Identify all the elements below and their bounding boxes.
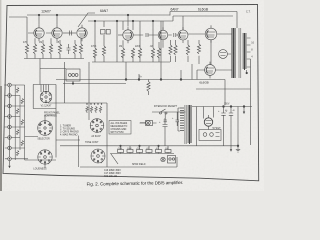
input jack J1 [8, 83, 12, 87]
bottom bus [80, 157, 177, 167]
tube V7 output [205, 62, 216, 79]
wire screen risers [126, 62, 225, 105]
wire stage2 drops [95, 35, 153, 62]
rotary switch S2 [38, 121, 53, 136]
screen bus [56, 79, 225, 81]
junction dot bus4 [152, 20, 154, 22]
wire input stub top [9, 16, 27, 18]
junction dot heater2 [139, 145, 141, 147]
wire selector drop [78, 136, 80, 168]
resistor R9 [102, 46, 105, 56]
T1 core [239, 28, 241, 78]
wire jack bus vertical [9, 87, 11, 166]
resistor R30 [16, 151, 18, 156]
junction dot ps3 [243, 106, 245, 108]
wire output stage [159, 34, 232, 80]
resistor R8 [93, 48, 96, 58]
resistor R7 [79, 44, 82, 54]
socket S5 [38, 150, 52, 164]
rectifier V8 [204, 115, 212, 129]
page background [0, 0, 264, 191]
wire heater verticals [107, 146, 168, 167]
resistor R2 [33, 44, 36, 54]
resistor R18 [147, 82, 150, 92]
ground arrow jack [8, 166, 10, 168]
socket S3 [90, 119, 104, 133]
resistor R4 [49, 44, 52, 54]
wire V4 couple [168, 33, 205, 37]
capacitor C11 electrolytic [159, 118, 168, 146]
T1 secondary taps [247, 38, 251, 67]
tube V4b [178, 27, 188, 43]
wire switch diagonal [111, 154, 118, 164]
resistor R20 [21, 99, 23, 104]
junction dot heater1 [120, 145, 122, 147]
ground arrow ps [243, 107, 245, 115]
input jack J7 [8, 146, 12, 150]
tube V3 [123, 27, 133, 43]
terminal dots row [86, 103, 102, 104]
terminal strip TS1 [168, 156, 176, 164]
resistor R19 [16, 88, 18, 93]
resistor R29 [21, 141, 23, 146]
junction dot plate1 [38, 14, 40, 16]
PS left vertical [195, 107, 197, 146]
junction dot screen4 [180, 79, 182, 81]
capacitor C16 [172, 112, 179, 126]
wire S1 top links [33, 85, 56, 158]
resistor box RB4 [146, 150, 152, 153]
B+ bus middle [88, 20, 173, 22]
capacitor C15 [164, 112, 168, 122]
input jack J8 [8, 157, 12, 161]
wire jack stubs [11, 85, 28, 159]
junction dot ps2 [230, 106, 232, 108]
wire bleeder arrow [230, 146, 232, 152]
filter capacitor C12 [218, 107, 226, 146]
voltage table [111, 122, 128, 134]
T2 secondary ticks [188, 106, 193, 142]
resistor R6 [73, 44, 76, 54]
resistor R16 [174, 45, 177, 55]
input jack J3 [8, 104, 12, 108]
switch SW1 [160, 109, 168, 114]
resistor box RB6 [165, 150, 171, 153]
junction dot heater3 [158, 145, 160, 147]
wire input collector 2 [19, 96, 21, 151]
T1 secondary ticks [243, 34, 247, 68]
resistor R11 [131, 48, 134, 58]
resistor R3 [41, 44, 44, 54]
junction dot bus1 [94, 20, 96, 22]
resistor R17 [197, 44, 200, 54]
resistor R21 [16, 109, 18, 114]
input jack J5 [8, 125, 12, 129]
resistor R14 [157, 48, 160, 58]
wire input collector 3 [24, 85, 26, 160]
wire jack left stubs [4, 85, 8, 159]
resistor R16b [186, 45, 189, 55]
wire grid V1 [27, 17, 52, 44]
T1 primary ticks [231, 29, 236, 77]
resistor R15 [169, 45, 172, 55]
pilot lamp I2 [161, 157, 165, 161]
junction dot screen3 [160, 79, 162, 81]
wire drops stage1 [27, 38, 81, 58]
ground symbol ps [236, 146, 240, 152]
wire PT leads [178, 107, 252, 132]
junction dot secondary [246, 72, 248, 74]
long vertical riser [88, 62, 90, 120]
T2 core [185, 105, 186, 144]
wire grid V3 [118, 34, 123, 36]
capacitor C4 box [101, 30, 106, 35]
resistor R12 [138, 48, 141, 58]
wire V3 couple [133, 33, 158, 37]
filter can C10 [66, 69, 80, 81]
B+ bus right upper [170, 12, 237, 29]
output transformer T1 primary hatch [233, 28, 235, 78]
wire input collector 1 [14, 85, 16, 160]
wire feedback diagonal [78, 13, 95, 27]
wire plate bus stage1 [27, 15, 170, 26]
wire coupling V1b to V2 [63, 32, 76, 34]
resistor box RB5 [156, 150, 162, 153]
schematic border frame [3, 5, 259, 181]
value row text [118, 148, 170, 150]
resistor box RB3 [137, 150, 143, 153]
voltage table box [109, 121, 131, 135]
capacitor C3 [67, 44, 71, 54]
fuse F1 [140, 121, 157, 126]
junction dot plate2 [56, 14, 58, 16]
resistor R10 [121, 48, 124, 58]
tube V1b [52, 25, 62, 41]
resistor R31 [86, 106, 88, 113]
T2 secondary hatch [189, 105, 191, 144]
resistor R5 [58, 44, 61, 54]
wire rectifier vertical [204, 107, 214, 130]
input jack J6 [8, 136, 12, 140]
junction dot ps1 [223, 106, 225, 108]
junction dot ps4 [237, 145, 239, 147]
wire stage2 verticals [95, 21, 161, 62]
switch table text [60, 125, 79, 137]
pilot lamp I1 [140, 121, 150, 126]
capacitor C4b box [106, 30, 110, 35]
junction dot can [72, 83, 74, 85]
power transformer T2 primary ticks [180, 108, 184, 131]
note text controls [44, 112, 61, 118]
resistor box RB2 [127, 150, 133, 153]
coupling cap C2 [70, 31, 72, 36]
ground bus stage2 [92, 61, 170, 63]
junction dot screen1 [125, 79, 127, 81]
resistor R1 [25, 44, 28, 54]
socket S4 [91, 149, 105, 163]
heater bus lower [110, 153, 174, 155]
wire rotary links [45, 115, 56, 121]
phase splitter node circle [219, 50, 231, 59]
wire ac line [152, 111, 186, 113]
resistor R22 [21, 120, 23, 125]
resistor R33 [95, 106, 97, 113]
resistor R32 [90, 106, 92, 113]
B+ bus right lower [173, 16, 233, 21]
wire input collectors out [25, 137, 56, 161]
wire ps right vertical [237, 107, 239, 146]
PS bottom bus [196, 145, 232, 147]
page left edge shadow upper [0, 0, 1, 86]
wire secondary return [196, 59, 251, 145]
filter capacitor C13 [226, 107, 234, 146]
wire mid link bus [48, 103, 107, 146]
socket S1 [40, 91, 52, 103]
ground bus stage1 [24, 58, 84, 60]
input jack J2 [8, 94, 12, 98]
parts list text [104, 170, 121, 178]
T1 secondary hatch [244, 33, 246, 70]
input jack J4 [8, 115, 12, 119]
wire S1 bottom bus [33, 108, 56, 110]
wire can cap leads [40, 59, 126, 104]
junction dot plate3 [127, 14, 129, 16]
wire V4 leads [163, 16, 183, 48]
resistor R13 [151, 48, 154, 58]
resistor R23 [16, 130, 18, 135]
page left edge shadow [0, 86, 2, 191]
junction dot bus3 [132, 20, 134, 22]
junction dot screen2 [138, 79, 140, 81]
wire R18 leads [148, 80, 150, 96]
heater box [199, 130, 221, 141]
tube V1a [34, 25, 44, 41]
junction dot bus2 [116, 20, 118, 22]
heater bus upper [60, 145, 238, 147]
resistor box RB1 [118, 150, 124, 153]
tube V4 [158, 27, 168, 43]
tube V5 output [205, 25, 217, 43]
tube V2 [77, 25, 87, 41]
resistor R34 [99, 106, 101, 113]
wire S5 bottom stub [44, 164, 46, 168]
scan grain overlay [0, 0, 264, 191]
